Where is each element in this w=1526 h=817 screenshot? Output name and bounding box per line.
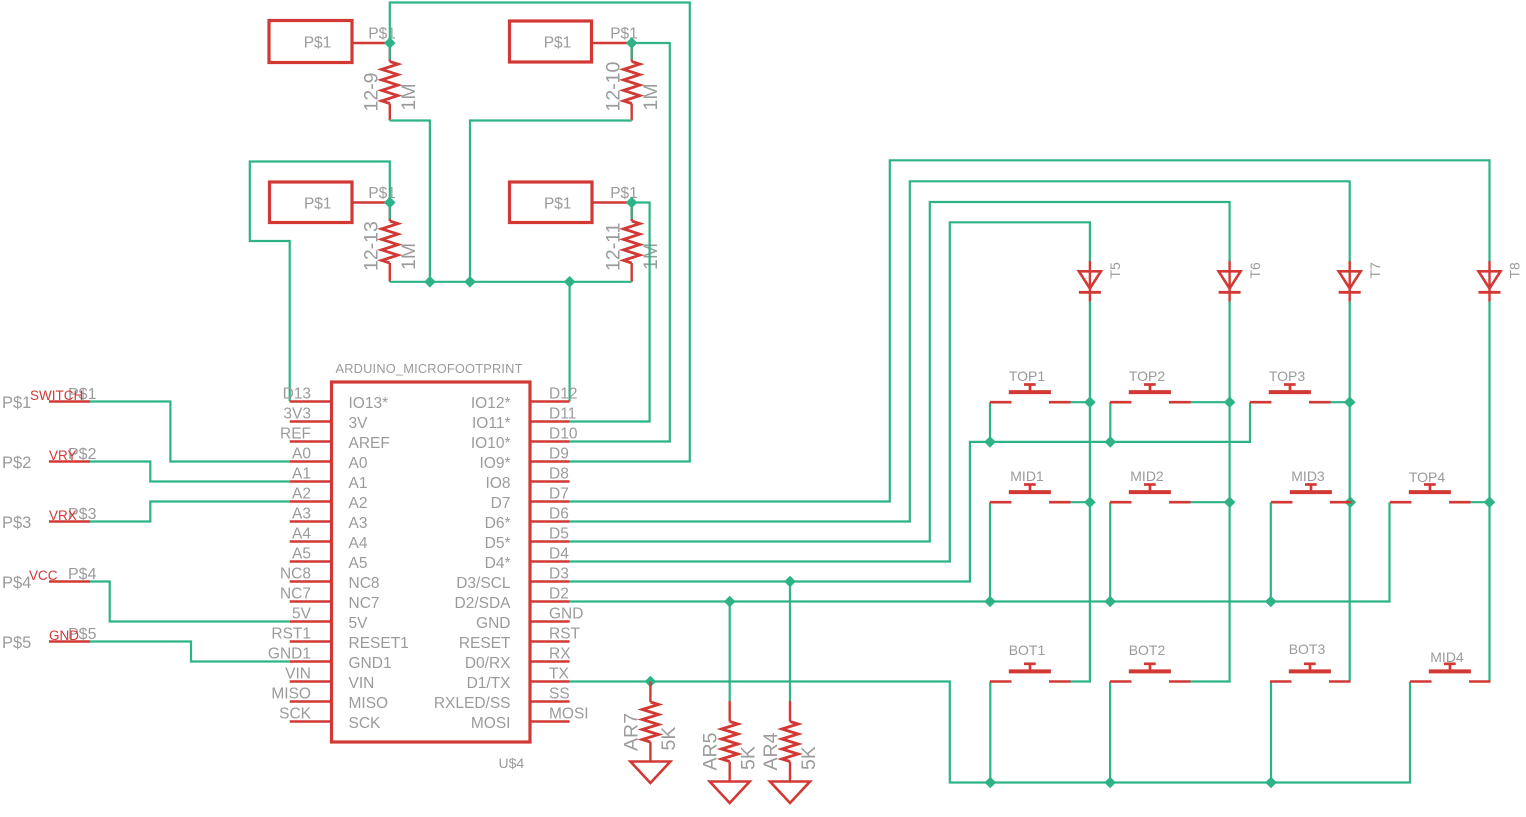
wire AR4 drop from D3 row	[789, 582, 791, 702]
resistor 12-9 1M name label	[361, 72, 383, 111]
svg-text:RST: RST	[549, 626, 581, 643]
IC pin GND1 (left)	[268, 646, 392, 673]
connector pad P$5 part label	[2, 634, 31, 652]
svg-text:P$2: P$2	[2, 454, 31, 472]
svg-text:D2: D2	[549, 586, 569, 603]
wire net D7 (IC D7 to diode T8)	[570, 160, 1490, 501]
svg-text:D5*: D5*	[485, 535, 511, 552]
junction rail x470	[464, 276, 476, 288]
svg-text:P$3: P$3	[2, 514, 31, 532]
wire net VCC (P$4 to 5V)	[90, 582, 290, 622]
connector pad P$3 pin label	[68, 506, 97, 523]
resistor AR4 name label	[760, 732, 782, 770]
svg-text:D8: D8	[549, 466, 569, 483]
connector pad P$2 part label	[2, 454, 31, 472]
P$1 pad (12-10)	[510, 21, 632, 62]
junction MID2 right	[1224, 496, 1236, 508]
svg-text:TX: TX	[549, 666, 569, 683]
svg-text:IO8: IO8	[486, 475, 511, 492]
svg-text:TOP1: TOP1	[1009, 368, 1046, 384]
wire net D6 (IC D6 to diode T7)	[570, 181, 1350, 521]
svg-text:GND: GND	[549, 606, 583, 623]
junction TX / AR7	[645, 676, 657, 688]
wire net D9 (pad 12-9 to IC D9)	[390, 3, 690, 462]
svg-text:U$4: U$4	[499, 755, 525, 771]
wire net D2 (IC D2 to MID row)	[570, 502, 1390, 601]
push button MID3	[1271, 485, 1352, 503]
svg-text:1M: 1M	[640, 243, 662, 270]
junction MID2 left drop	[1104, 596, 1116, 608]
P$1 pad (12-13) pin label P$1	[368, 185, 396, 202]
svg-text:A5: A5	[292, 546, 311, 563]
svg-text:D0/RX: D0/RX	[465, 655, 511, 672]
wire TOP2 right to column	[1191, 401, 1230, 403]
svg-text:SCK: SCK	[279, 706, 312, 723]
connector pad P$1 pin label	[68, 386, 97, 403]
wire 12-9 bottom to rail	[390, 121, 430, 282]
svg-text:NC8: NC8	[349, 575, 380, 592]
svg-text:A5: A5	[349, 555, 368, 572]
push button TOP1	[990, 385, 1071, 403]
svg-text:IO10*: IO10*	[471, 435, 511, 452]
P$1 pad (12-13)	[270, 182, 390, 223]
svg-text:5V: 5V	[349, 615, 369, 632]
connector pad P$1 part label	[2, 394, 31, 412]
svg-text:P$1: P$1	[544, 35, 572, 52]
P$1 pad (12-13) box label P$1	[304, 195, 332, 212]
svg-text:D6: D6	[549, 506, 569, 523]
wire net D3 (IC D3 to TOP row)	[570, 402, 1250, 581]
IC pin A0 (left)	[290, 446, 368, 473]
svg-text:BOT3: BOT3	[1289, 641, 1326, 657]
IC pin D8 (right)	[486, 466, 570, 493]
resistor AR5 name label	[700, 732, 722, 770]
junction MID1 left drop	[984, 596, 996, 608]
svg-text:1M: 1M	[640, 83, 662, 110]
push button BOT1 label	[1009, 642, 1046, 658]
IC pin A4 (left)	[290, 526, 368, 553]
IC title ARDUINO_MICROFOOTPRINT	[336, 361, 523, 376]
svg-text:A2: A2	[292, 486, 311, 503]
net label VRX	[49, 508, 77, 523]
net label VCC	[29, 568, 58, 583]
push button MID4	[1410, 664, 1491, 682]
connector pad P$4 part label	[2, 574, 31, 592]
IC pin RST (right)	[459, 626, 581, 653]
push button MID1 label	[1010, 468, 1044, 484]
push button TOP1 label	[1009, 368, 1046, 384]
svg-text:SS: SS	[549, 686, 570, 703]
push button MID3 label	[1291, 468, 1325, 484]
push button BOT2 label	[1129, 642, 1166, 658]
svg-text:RST1: RST1	[271, 626, 311, 643]
svg-text:MID3: MID3	[1291, 468, 1325, 484]
svg-text:D6*: D6*	[485, 515, 511, 532]
net label GND	[49, 628, 79, 643]
svg-text:T5: T5	[1107, 262, 1123, 279]
push button TOP2	[1110, 385, 1191, 403]
svg-text:A3: A3	[349, 515, 368, 532]
svg-text:P$5: P$5	[2, 634, 31, 652]
svg-text:NC8: NC8	[280, 566, 311, 583]
svg-text:A3: A3	[292, 506, 311, 523]
wire stub into resistor 12-10	[631, 43, 633, 60]
svg-text:IO13*: IO13*	[349, 395, 389, 412]
IC pin NC7 (left)	[280, 586, 380, 613]
svg-text:D13: D13	[283, 386, 311, 403]
svg-text:D9: D9	[549, 446, 569, 463]
IC designator U$4	[499, 755, 525, 771]
resistor 12-10 1M name label	[602, 61, 624, 111]
svg-text:RXLED/SS: RXLED/SS	[434, 695, 511, 712]
wire net D4 (IC D4 to diode T5)	[570, 222, 1090, 561]
resistor AR5 value label 5K	[738, 746, 760, 770]
svg-text:1M: 1M	[398, 83, 420, 110]
IC pin D5 (right)	[485, 526, 570, 553]
ground symbol below AR4	[770, 782, 810, 804]
junction D3 / AR4	[784, 576, 796, 588]
svg-text:GND1: GND1	[349, 655, 392, 672]
resistor 12-9 1M value label 1M	[398, 83, 420, 110]
ground symbol below AR7	[630, 762, 670, 784]
junction pad 12-11 pin	[626, 197, 638, 209]
svg-text:MISO: MISO	[349, 695, 389, 712]
wire net D13 (pad 12-13 junction to IC D13)	[250, 162, 390, 402]
svg-text:D1/TX: D1/TX	[467, 675, 512, 692]
resistor AR5 5K	[722, 701, 738, 782]
push button TOP4	[1390, 485, 1471, 503]
junction TOP2 left drop	[1105, 436, 1117, 448]
wire net D11 (pad 12-11 to IC D11)	[570, 203, 650, 422]
resistor AR7 name label	[620, 713, 642, 751]
junction pad 12-9 pin	[384, 37, 396, 49]
wire T8 column	[1488, 302, 1490, 682]
wire net D12 (rail to IC D12)	[568, 282, 570, 402]
svg-text:MID4: MID4	[1430, 649, 1464, 665]
resistor AR7 value label 5K	[658, 727, 680, 751]
svg-text:AREF: AREF	[349, 435, 390, 452]
svg-text:A4: A4	[292, 526, 311, 543]
wire net SWITCH (P$1 to A0)	[90, 402, 290, 462]
svg-text:RESET: RESET	[459, 635, 511, 652]
wire MID1 left drop	[989, 502, 991, 601]
junction TOP3 right	[1344, 396, 1356, 408]
diode T7	[1339, 261, 1361, 302]
wire MID2 right to column	[1191, 501, 1230, 503]
IC pin REF (left)	[280, 426, 390, 453]
wire TOP3 right to column	[1331, 401, 1350, 403]
wire stub into resistor 12-9	[389, 43, 391, 60]
svg-text:D2/SDA: D2/SDA	[455, 595, 512, 612]
svg-text:12-11: 12-11	[602, 223, 624, 271]
svg-text:NC7: NC7	[349, 595, 380, 612]
wire 12-10 bottom to rail	[470, 121, 632, 282]
push button TOP2 label	[1129, 368, 1166, 384]
svg-text:VIN: VIN	[285, 666, 311, 683]
wire TOP1 right to column	[1071, 401, 1090, 403]
IC pin A1 (left)	[290, 466, 368, 493]
svg-text:5K: 5K	[798, 746, 820, 770]
junction TOP1 left drop	[984, 436, 996, 448]
svg-text:A0: A0	[349, 455, 368, 472]
wire stub into resistor 12-13	[389, 203, 391, 220]
push button MID2	[1110, 485, 1191, 503]
resistor AR4 value label 5K	[798, 746, 820, 770]
push button BOT3	[1270, 664, 1351, 682]
svg-text:ARDUINO_MICROFOOTPRINT: ARDUINO_MICROFOOTPRINT	[336, 361, 523, 376]
push button MID2 label	[1130, 468, 1164, 484]
resistor 12-10 1M value label 1M	[640, 83, 662, 110]
IC pin D7 (right)	[491, 486, 570, 513]
svg-text:TOP3: TOP3	[1269, 368, 1306, 384]
P$1 pad (12-9) pin label P$1	[368, 26, 396, 43]
diode T5	[1079, 261, 1101, 302]
svg-text:T7: T7	[1367, 262, 1383, 279]
IC pin D10 (right)	[471, 426, 578, 453]
IC pin D4 (right)	[485, 546, 570, 573]
wire T5 column	[1071, 302, 1090, 682]
svg-text:AR5: AR5	[700, 732, 722, 770]
svg-text:D11: D11	[549, 406, 576, 423]
svg-text:SWITCH: SWITCH	[30, 388, 83, 403]
push button MID4 label	[1430, 649, 1464, 665]
svg-text:P$1: P$1	[304, 35, 332, 52]
IC pin 5V (left)	[290, 606, 368, 633]
diode T8 label	[1507, 262, 1523, 279]
svg-text:D3: D3	[549, 566, 569, 583]
svg-text:5K: 5K	[738, 746, 760, 770]
diode T7 label	[1367, 262, 1383, 279]
svg-text:A0: A0	[292, 446, 311, 463]
junction rail x430	[424, 276, 436, 288]
push button BOT2	[1110, 664, 1191, 682]
svg-text:D3/SCL: D3/SCL	[456, 575, 511, 592]
svg-text:BOT2: BOT2	[1129, 642, 1166, 658]
wire TOP2 left drop	[1109, 402, 1111, 442]
resistor 12-9 1M	[382, 43, 398, 121]
junction BOT3 left drop	[1265, 777, 1277, 789]
connector pad P$2 pin stub	[49, 460, 90, 462]
junction MID3 right	[1345, 496, 1357, 508]
svg-text:3V: 3V	[349, 415, 369, 432]
diode T8	[1479, 261, 1501, 302]
wire MID2 left drop	[1109, 502, 1111, 601]
push button BOT3 label	[1289, 641, 1326, 657]
wire TOP4 right to column	[1471, 501, 1490, 503]
diode T6 label	[1247, 262, 1263, 279]
wire net VRY (P$2 to A1)	[90, 462, 290, 482]
svg-text:GND: GND	[476, 615, 510, 632]
svg-text:D10: D10	[549, 426, 578, 443]
IC pin GND (right)	[476, 606, 583, 633]
connector pad P$4 pin stub	[49, 580, 90, 582]
svg-text:D7: D7	[549, 486, 569, 503]
wire net VRX (P$3 to A2)	[90, 502, 290, 522]
IC pin D2 (right)	[455, 586, 570, 613]
P$1 pad (12-11) box label P$1	[544, 195, 572, 212]
IC pin NC8 (left)	[280, 566, 380, 593]
IC pin RST1 (left)	[271, 626, 408, 653]
svg-text:VCC: VCC	[29, 568, 58, 583]
IC pin MOSI (right)	[471, 706, 589, 733]
svg-text:MOSI: MOSI	[549, 706, 589, 723]
IC pin D9 (right)	[479, 446, 569, 473]
wire BOT3 left drop	[1270, 682, 1272, 783]
IC pin MISO (left)	[271, 686, 388, 713]
resistor AR7 5K	[642, 682, 658, 762]
svg-text:MOSI: MOSI	[471, 715, 511, 732]
wire BOT2 left drop	[1109, 682, 1111, 783]
svg-text:VRX: VRX	[49, 508, 77, 523]
connector pad P$4 pin label	[68, 566, 97, 583]
resistor 12-11 1M name label	[602, 223, 624, 271]
svg-text:D7: D7	[491, 495, 511, 512]
wire T6 column	[1191, 302, 1230, 682]
svg-text:A2: A2	[349, 495, 368, 512]
svg-text:T6: T6	[1247, 262, 1263, 279]
svg-text:TOP2: TOP2	[1129, 368, 1166, 384]
connector pad P$1 pin stub	[49, 400, 90, 402]
resistor 12-13 1M name label	[361, 221, 383, 271]
IC pin RX (right)	[465, 646, 571, 673]
svg-text:AR4: AR4	[760, 732, 782, 770]
svg-text:5V: 5V	[292, 606, 312, 623]
push button TOP3	[1250, 385, 1331, 403]
svg-text:T8: T8	[1507, 262, 1523, 279]
svg-text:SCK: SCK	[349, 715, 382, 732]
wire stub into resistor 12-11	[631, 203, 633, 220]
wire net TX (IC TX to BOT row)	[570, 682, 1410, 783]
P$1 pad (12-9) box label P$1	[304, 35, 332, 52]
wire bottom rail of 1M resistors	[390, 281, 632, 283]
svg-text:5K: 5K	[658, 727, 680, 751]
net label SWITCH	[30, 388, 83, 403]
junction MID3 left drop	[1265, 596, 1277, 608]
junction TOP1 right	[1084, 396, 1096, 408]
IC pin D13 (left)	[283, 386, 389, 413]
svg-text:D12: D12	[549, 386, 577, 403]
IC pin SS (right)	[434, 686, 570, 713]
push button BOT1	[990, 664, 1071, 682]
junction TOP4 right	[1484, 496, 1496, 508]
svg-text:1M: 1M	[398, 243, 420, 270]
svg-text:MISO: MISO	[271, 686, 311, 703]
IC pin A3 (left)	[290, 506, 368, 533]
svg-text:IO9*: IO9*	[479, 455, 510, 472]
P$1 pad (12-11)	[510, 182, 632, 223]
svg-text:D4: D4	[549, 546, 569, 563]
P$1 pad (12-11) pin label P$1	[610, 185, 638, 202]
resistor 12-11 1M value label 1M	[640, 243, 662, 270]
svg-text:NC7: NC7	[280, 586, 311, 603]
svg-text:D5: D5	[549, 526, 569, 543]
svg-text:3V3: 3V3	[283, 406, 311, 423]
resistor 12-13 1M	[382, 203, 398, 282]
push button TOP4 label	[1409, 469, 1446, 485]
svg-text:TOP4: TOP4	[1409, 469, 1446, 485]
resistor 12-13 1M value label 1M	[398, 243, 420, 270]
svg-text:VIN: VIN	[349, 675, 375, 692]
svg-text:P$1: P$1	[304, 195, 332, 212]
IC pin A2 (left)	[290, 486, 368, 513]
svg-text:MID1: MID1	[1010, 468, 1044, 484]
resistor 12-10 1M	[624, 43, 640, 121]
svg-text:P$1: P$1	[544, 195, 572, 212]
diode T5 label	[1107, 262, 1123, 279]
IC pin D11 (right)	[472, 406, 576, 433]
push button MID1	[990, 485, 1071, 503]
wire TOP1 left drop	[989, 402, 991, 442]
svg-text:RESET1: RESET1	[349, 635, 409, 652]
svg-text:IO11*: IO11*	[472, 415, 511, 432]
IC pin A5 (left)	[290, 546, 368, 573]
svg-text:D4*: D4*	[485, 555, 511, 572]
svg-text:12-10: 12-10	[602, 61, 624, 111]
P$1 pad (12-10) box label P$1	[544, 35, 572, 52]
junction pad 12-13 pin	[384, 197, 396, 209]
svg-text:REF: REF	[280, 426, 311, 443]
svg-text:AR7: AR7	[620, 713, 642, 751]
svg-text:VRY: VRY	[49, 448, 77, 463]
IC U$4 ARDUINO_MICROFOOTPRINT body	[332, 382, 531, 742]
svg-text:GND: GND	[49, 628, 79, 643]
connector pad P$5 pin stub	[49, 640, 90, 642]
svg-text:12-13: 12-13	[361, 221, 383, 271]
junction rail x570 (D12)	[564, 276, 576, 288]
P$1 pad (12-10) pin label P$1	[610, 26, 638, 43]
wire T7 column	[1349, 302, 1351, 682]
IC pin D3 (right)	[456, 566, 569, 593]
svg-text:P$1: P$1	[2, 394, 31, 412]
IC pin D6 (right)	[485, 506, 570, 533]
svg-text:12-9: 12-9	[361, 72, 383, 111]
net label VRY	[49, 448, 77, 463]
wire net D10 (pad 12-10 to IC D10)	[570, 43, 670, 442]
connector pad P$2 pin label	[68, 446, 97, 463]
svg-text:P$4: P$4	[2, 574, 31, 592]
IC pin D12 (right)	[471, 386, 578, 413]
junction MID1 right	[1084, 496, 1096, 508]
resistor AR4 5K	[782, 701, 798, 782]
wire MID3 left drop	[1270, 502, 1272, 601]
ground symbol below AR5	[710, 782, 750, 804]
svg-text:BOT1: BOT1	[1009, 642, 1046, 658]
junction BOT1 left drop	[985, 777, 997, 789]
junction D2 / AR5	[724, 596, 736, 608]
junction TOP2 right	[1224, 396, 1236, 408]
connector pad P$3 pin stub	[49, 520, 90, 522]
wire AR5 drop from D2 row	[729, 602, 731, 702]
IC pin VIN (left)	[285, 666, 374, 693]
connector pad P$5 pin label	[68, 626, 97, 643]
P$1 pad (12-9)	[269, 21, 390, 63]
junction pad 12-10 pin	[626, 37, 638, 49]
wire net GND (P$5 to GND1)	[90, 642, 290, 662]
wire MID1 right to column	[1071, 501, 1090, 503]
diode T6	[1219, 261, 1241, 302]
IC pin TX (right)	[467, 666, 570, 693]
svg-text:RX: RX	[549, 646, 571, 663]
svg-text:IO12*: IO12*	[471, 395, 511, 412]
IC pin 3V3 (left)	[283, 406, 368, 433]
svg-text:A1: A1	[292, 466, 311, 483]
junction BOT2 left drop	[1104, 777, 1116, 789]
resistor 12-11 1M	[624, 203, 640, 282]
svg-text:A4: A4	[349, 535, 368, 552]
connector pad P$3 part label	[2, 514, 31, 532]
IC pin SCK (left)	[279, 706, 381, 733]
svg-text:A1: A1	[349, 475, 368, 492]
